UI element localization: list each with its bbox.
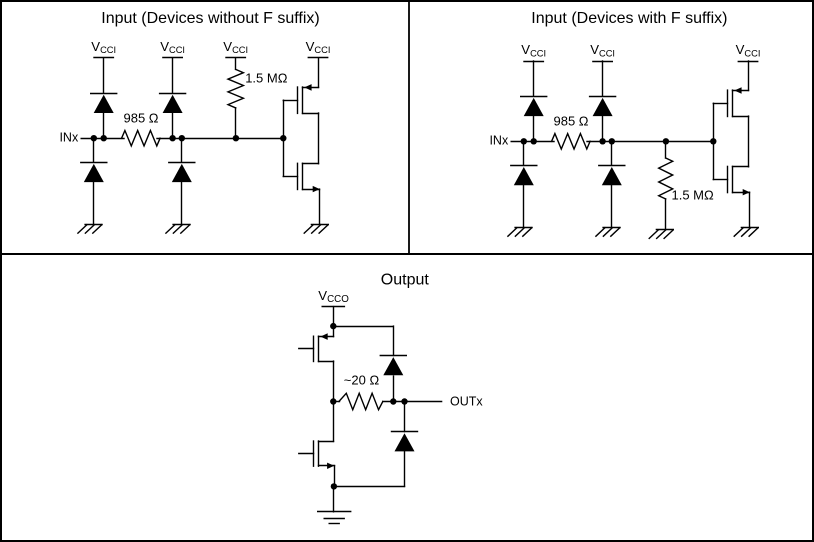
ground (under D4) [166, 225, 190, 234]
transistor Q'1 PMOS [713, 87, 748, 116]
resistor R1 985 ohm [122, 131, 161, 146]
transistor Q1 PMOS [283, 84, 318, 113]
svg-text:985 Ω: 985 Ω [123, 110, 158, 125]
svg-text:Input (Devices without F suffi: Input (Devices without F suffix) [101, 10, 319, 27]
power rail VCCI (over D1) [91, 39, 116, 57]
diode D3 (clamp to VCCI, internal node) [160, 94, 186, 114]
wire: NMOS source to ground node [334, 466, 336, 487]
wire: internal node net (right of resistor) [587, 61, 713, 227]
transistor Q6 NMOS (low-side) [299, 441, 335, 469]
power rail VCCO [318, 288, 349, 307]
diode D10 (OUT clamp from GND) [392, 432, 418, 452]
node dot: INx at D1 branch [91, 135, 97, 141]
wire: VCCO to PMOS source [333, 307, 335, 337]
wire: PMOS source to VCCI [318, 58, 320, 88]
wire: ground node to earth [333, 486, 335, 511]
power rail VCCI (over Q'1) [736, 42, 761, 61]
wire: OUT node to R5 [333, 401, 339, 403]
node dot: drain/resistor junction [330, 398, 336, 404]
node dot: internal at R2 branch [663, 138, 669, 144]
transistor Q2 NMOS [283, 163, 320, 192]
node dot: OUT at bottom diode [401, 398, 407, 404]
wire: NMOS source to ground [319, 189, 321, 224]
wire: NMOS source to ground [749, 192, 751, 227]
wire: VCCI to R2 [235, 58, 237, 138]
transistor Q5 PMOS (high-side) [299, 333, 334, 361]
wire: PMOS drain to NMOS drain [748, 116, 750, 167]
wire: top diode to OUT node [393, 376, 395, 401]
wire: VCCO node to top diode [333, 326, 393, 355]
ground (under D'4) [596, 228, 620, 237]
svg-text:INx: INx [489, 134, 509, 148]
ground (under D'2) [508, 228, 532, 237]
wire: bottom diode to ground net [333, 451, 404, 486]
svg-text:1.5 MΩ: 1.5 MΩ [245, 70, 288, 85]
node dot: INx at D1 branch [521, 138, 527, 144]
wire: PMOS drain to NMOS drain [318, 113, 320, 164]
node dot: INx at D2 branch [531, 138, 537, 144]
node dot: ground net junction [331, 483, 337, 489]
node dot: internal at gate line [710, 138, 716, 144]
resistor R5 ~20 ohm [339, 393, 383, 409]
panel divider: horizontal [0, 253, 814, 255]
wire: OUT net to pin [383, 401, 442, 403]
diode D'2 (clamp from GND at INx) [511, 166, 537, 186]
node dot: VCCO branch [330, 323, 336, 329]
power rail VCCI (over D3) [160, 39, 185, 57]
svg-text:OUTx: OUTx [450, 394, 483, 408]
diode D2 (clamp from GND at INx) [81, 163, 107, 183]
diode D1 (clamp to VCCI at INx) [91, 94, 117, 114]
node dot: internal at D3 branch [599, 138, 605, 144]
power rail VCCI (over D'1) [521, 42, 546, 61]
svg-text:Output: Output [381, 272, 430, 289]
wire: INx input net (left of resistor) [81, 58, 124, 224]
panel divider: vertical [408, 2, 410, 254]
resistor R2 1.5 Mohm (pull-up) [228, 69, 243, 108]
ground (under D2) [78, 225, 102, 234]
node dot: internal at D4 branch [179, 135, 185, 141]
wire: internal node net (right of resistor) [157, 58, 283, 224]
ground (under Q2) [304, 225, 328, 234]
diode D9 (OUT clamp to VCCO) [380, 356, 406, 376]
power rail VCCI (over R2) [223, 39, 248, 57]
wire: OUT node to bottom diode [404, 402, 406, 432]
svg-text:INx: INx [59, 130, 79, 144]
node dot: internal at D3 branch [169, 135, 175, 141]
diode D'3 (clamp to VCCI, internal node) [590, 97, 616, 117]
power rail VCCI (over D'3) [590, 42, 615, 61]
node dot: internal at gate line [280, 135, 286, 141]
ground (under R'2) [649, 230, 673, 239]
node dot: OUT at top diode [390, 398, 396, 404]
svg-text:Input (Devices with F suffix): Input (Devices with F suffix) [531, 10, 727, 27]
resistor R'1 985 ohm [552, 134, 591, 149]
power rail VCCI (over Q1) [306, 39, 331, 57]
wire: OUT node down to NMOS drain [333, 402, 335, 442]
wire: gate line [713, 103, 715, 179]
diode D'1 (clamp to VCCI at INx) [521, 97, 547, 117]
ground (under Q'2) [734, 228, 758, 237]
ground (output, earth symbol) [318, 512, 351, 524]
wire: node to R2 to ground [665, 141, 667, 229]
diode D4 (clamp from GND, internal node) [169, 163, 195, 183]
diode D'4 (clamp from GND, internal node) [599, 166, 625, 186]
wire: INx input net (left of resistor) [511, 61, 554, 227]
svg-text:~20 Ω: ~20 Ω [344, 373, 380, 388]
wire: PMOS drain down to OUT node [333, 361, 335, 401]
svg-text:985 Ω: 985 Ω [553, 113, 588, 128]
svg-text:1.5 MΩ: 1.5 MΩ [672, 188, 715, 203]
node dot: internal at D4 branch [609, 138, 615, 144]
transistor Q'2 NMOS [713, 166, 750, 195]
node dot: internal at R2 branch [233, 135, 239, 141]
wire: gate line [283, 100, 285, 176]
wire: PMOS source to VCCI [748, 61, 750, 91]
node dot: INx at D2 branch [101, 135, 107, 141]
resistor R'2 1.5 Mohm (pull-down) [659, 158, 673, 199]
